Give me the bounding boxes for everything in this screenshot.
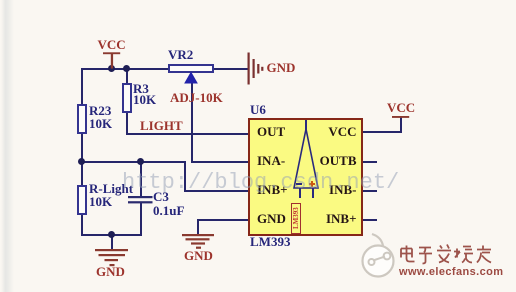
- char 5 友: [477, 246, 491, 263]
- resistor R23 body: [77, 104, 87, 134]
- node: C3 top junction: [137, 158, 144, 165]
- label R-Light value 10K: [89, 195, 112, 208]
- wire: stub OUTB: [363, 161, 377, 163]
- label LM393 under chip: [250, 235, 290, 248]
- GND earth bottom-left: [95, 249, 128, 251]
- wire: INB+ horizontal: [184, 190, 249, 192]
- left page-edge gray strip: [1, 0, 14, 292]
- capacitor C3 plates: [128, 196, 153, 198]
- wire: R3 bottom stem: [126, 112, 128, 134]
- label R23 value 10K: [89, 117, 112, 130]
- chip U6 body: [248, 118, 363, 236]
- pin OUTB: [320, 154, 357, 167]
- label ADJ-10K: [170, 91, 223, 104]
- wire: VCC right vertical: [400, 117, 402, 133]
- wire: GND pin drop vertical: [197, 219, 199, 235]
- wire: VCC right stem horizontal: [363, 131, 401, 133]
- VCC power bar right: [392, 116, 409, 118]
- node: R3 top junction: [123, 65, 130, 72]
- node: VCC stem junction: [108, 65, 115, 72]
- wire: R3 top stem: [126, 68, 128, 86]
- label VCC right: [387, 101, 415, 114]
- potentiometer VR2 body: [168, 64, 214, 73]
- pin INA-: [257, 154, 285, 167]
- label LIGHT: [140, 119, 183, 132]
- wire: C3 top stem: [140, 161, 142, 196]
- label C3 value 0.1uF: [153, 204, 184, 217]
- label R3 value 10K: [133, 93, 156, 106]
- wire: stub INB+ right: [363, 219, 377, 221]
- label GND top-right: [267, 61, 296, 74]
- wire: stub INB-: [363, 190, 377, 192]
- node: bottom GND junction: [108, 231, 115, 238]
- char 2 子: [419, 248, 432, 264]
- pin GND: [257, 212, 286, 225]
- wire: GND pin horizontal: [197, 219, 249, 221]
- wire: C3 bottom stem: [140, 203, 142, 236]
- VR2 wiper arrow: [185, 73, 197, 84]
- GND earth top-right (rotated): [248, 53, 250, 85]
- wire: INA- horizontal: [191, 161, 250, 163]
- wire: VR2 right to GND: [213, 68, 249, 70]
- label C3: [153, 190, 169, 203]
- wire: divider corner vertical: [184, 161, 186, 191]
- label R-Light: [89, 182, 133, 195]
- label R3: [133, 82, 149, 95]
- label VR2: [168, 48, 193, 61]
- op-amp output stem: [305, 120, 307, 131]
- VCC power bar top-left: [103, 52, 120, 54]
- label U6: [250, 103, 266, 116]
- wire: VR2 wiper stem vertical: [191, 82, 193, 163]
- GND earth middle: [182, 234, 214, 236]
- label GND middle: [184, 249, 213, 262]
- wire: OUT net horizontal (LIGHT): [126, 133, 249, 135]
- char 1 电: [401, 246, 415, 262]
- label R23: [89, 104, 111, 117]
- wire: VCC rail top horizontal: [81, 68, 168, 70]
- resistor R-Light body: [77, 185, 87, 215]
- elecfans watermark url: [399, 266, 503, 278]
- node: divider left junction: [78, 158, 85, 165]
- wire: bottom GND stem: [111, 234, 113, 250]
- resistor R3 body: [122, 83, 132, 113]
- elecfans logo circle: [363, 246, 394, 277]
- pin INB+ right: [326, 212, 357, 225]
- pin VCC: [328, 125, 356, 138]
- wire: divider node horizontal: [81, 161, 186, 163]
- watermark http://blog.csdn.net/: [122, 170, 399, 195]
- char 3 发: [437, 245, 451, 263]
- op-amp triangle: [294, 129, 318, 188]
- label GND bottom-left: [96, 265, 125, 278]
- char 4 烧: [454, 247, 473, 263]
- LM393 vertical tag inside chip: [291, 203, 301, 234]
- op-amp plus input mark: [309, 183, 315, 185]
- pin INB+ left: [257, 183, 288, 196]
- op-amp minus input mark: [296, 183, 302, 185]
- wire: left rail vertical: [81, 68, 83, 236]
- pin OUT: [257, 125, 285, 138]
- op-amp input stubs: [299, 188, 301, 198]
- label VCC top-left: [98, 38, 126, 51]
- pin INB-: [329, 183, 356, 196]
- wire: bottom node horizontal: [81, 234, 142, 236]
